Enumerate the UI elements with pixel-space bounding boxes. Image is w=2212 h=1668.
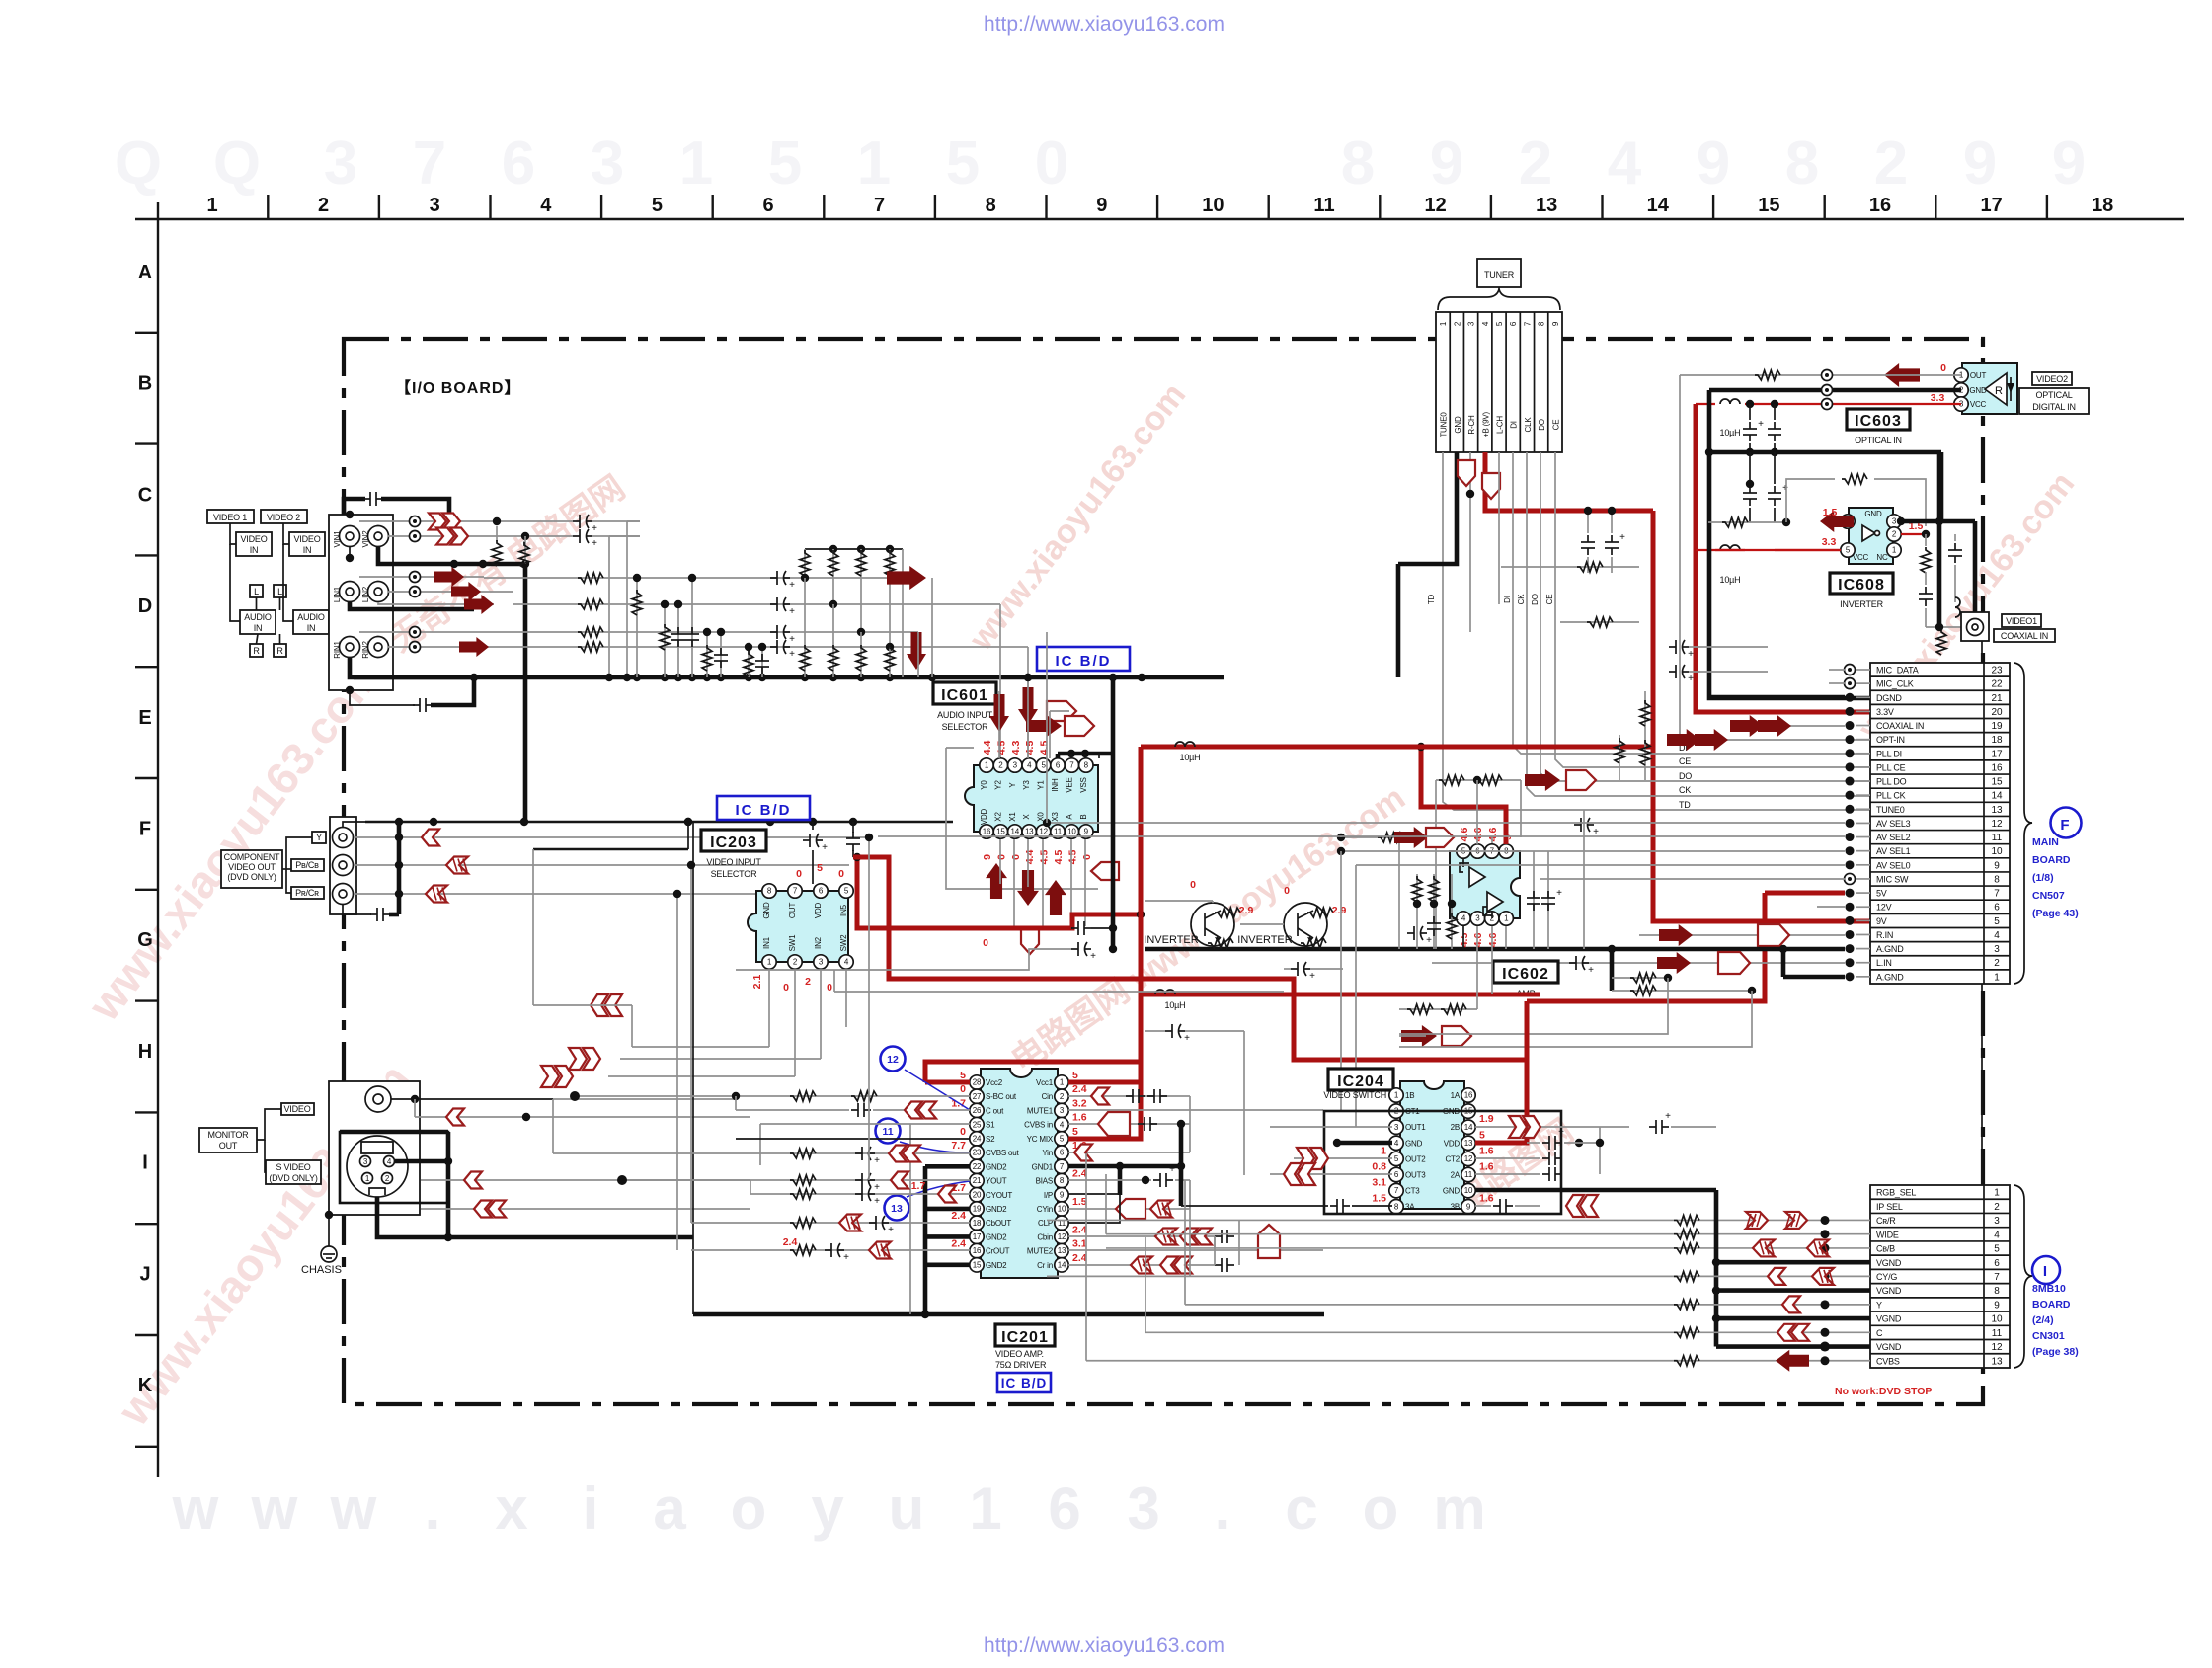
svg-text:VEE: VEE <box>1065 777 1073 792</box>
svg-text:9V: 9V <box>1876 916 1887 926</box>
svg-text:Cʙ/B: Cʙ/B <box>1876 1244 1895 1254</box>
IC601 bottom pin 9 <box>1079 825 1093 838</box>
svg-text:IC B/D: IC B/D <box>736 802 792 819</box>
jack Y <box>333 828 354 848</box>
svg-text:1: 1 <box>1994 1188 2000 1199</box>
svg-text:OUT2: OUT2 <box>1405 1154 1426 1163</box>
F row stubs <box>1856 669 1870 671</box>
svg-text:4.5: 4.5 <box>1024 741 1036 755</box>
IC201 right pin 6 <box>1055 1146 1068 1159</box>
IC201 left pin 15 <box>970 1258 984 1272</box>
svg-text:10: 10 <box>1067 828 1076 836</box>
svg-text:GND1: GND1 <box>1032 1162 1054 1171</box>
svg-text:GND2: GND2 <box>986 1232 1007 1241</box>
svg-text:【I/O BOARD】: 【I/O BOARD】 <box>395 379 520 397</box>
svg-text:18: 18 <box>973 1219 982 1228</box>
svg-text:IN5: IN5 <box>839 904 848 916</box>
IC201 right pin 12 <box>1055 1230 1068 1243</box>
svg-text:K: K <box>138 1375 153 1396</box>
svg-text:11: 11 <box>1464 1170 1473 1179</box>
svg-text:A.GND: A.GND <box>1876 944 1904 954</box>
svg-text:IC204: IC204 <box>1337 1073 1384 1090</box>
svg-text:14: 14 <box>1464 1123 1473 1132</box>
svg-text:1B: 1B <box>1405 1091 1414 1100</box>
svg-text:1: 1 <box>679 129 713 198</box>
svg-text:7.7: 7.7 <box>951 1140 966 1152</box>
svg-text:10µH: 10µH <box>1165 1000 1186 1010</box>
wire tuner L-CH down <box>1498 452 1500 604</box>
svg-text:13: 13 <box>1991 1356 2003 1367</box>
svg-text:LIN1: LIN1 <box>333 586 342 602</box>
ecap near inverter2 <box>1291 968 1298 970</box>
svg-text:6: 6 <box>1048 1475 1080 1542</box>
IC203 top pin 6 <box>814 884 828 898</box>
IC203 top pin 5 <box>839 884 853 898</box>
svg-text:3: 3 <box>1127 1475 1159 1542</box>
svg-text:CVBS in: CVBS in <box>1024 1121 1053 1130</box>
gray verticals left of IC201 <box>631 1005 633 1047</box>
svg-text:VDD: VDD <box>814 902 823 918</box>
svg-text:X3: X3 <box>1051 812 1060 822</box>
svg-text:16: 16 <box>973 1246 982 1255</box>
svg-text:Vcc1: Vcc1 <box>1036 1078 1054 1087</box>
svg-text:7: 7 <box>1069 761 1074 770</box>
svg-text:4.4: 4.4 <box>1024 850 1036 865</box>
blue ref 13 <box>885 1196 909 1221</box>
svg-text:8MB10: 8MB10 <box>2032 1283 2066 1295</box>
cap below panel <box>350 690 415 705</box>
IC608 pin 4 <box>1841 515 1855 528</box>
svg-text:VIDEO AMP.: VIDEO AMP. <box>995 1349 1044 1359</box>
wire MIC SW row <box>1540 878 1845 880</box>
IC204 right pin 12 <box>1461 1152 1475 1165</box>
svg-text:No work:DVD STOP: No work:DVD STOP <box>1835 1386 1932 1397</box>
svg-text:TUNE0: TUNE0 <box>1440 412 1449 437</box>
svg-text:VIDEO: VIDEO <box>293 534 320 544</box>
svg-text:MAIN: MAIN <box>2032 836 2059 848</box>
svg-text:+: + <box>843 1252 849 1263</box>
svg-text:RIN1: RIN1 <box>333 641 342 659</box>
IC201 left pin 25 <box>970 1117 984 1131</box>
svg-text:+: + <box>1556 888 1562 899</box>
svg-text:3: 3 <box>1994 944 2000 955</box>
arrow down below IC601 <box>1017 870 1039 906</box>
jack LIN2 <box>368 582 389 602</box>
svg-text:+: + <box>1090 951 1096 962</box>
wire Pr out <box>354 893 829 895</box>
wires IC203 left side <box>532 849 534 1005</box>
wire 12V row <box>1817 906 1845 908</box>
svg-text:GND2: GND2 <box>986 1162 1007 1171</box>
svg-text:2: 2 <box>1994 1202 2000 1213</box>
svg-text:S2: S2 <box>986 1135 995 1144</box>
connector F table <box>1870 663 2010 984</box>
svg-text:VIDEO1: VIDEO1 <box>2006 616 2037 626</box>
resistor vin2 shunt <box>523 541 525 546</box>
svg-text:VIDEO SWITCH: VIDEO SWITCH <box>1323 1090 1386 1100</box>
wire tuner DO down <box>1540 452 1870 781</box>
svg-text:2: 2 <box>805 976 811 988</box>
svg-text:IN: IN <box>254 623 263 633</box>
svg-text:C out: C out <box>986 1106 1004 1115</box>
ecap row585 <box>770 577 777 579</box>
IC204 GND thick <box>1337 1141 1392 1146</box>
svg-text:TD: TD <box>1427 594 1436 604</box>
IC601 top pin 3 <box>1008 758 1022 772</box>
svg-text:IC608: IC608 <box>1838 577 1885 594</box>
svg-text:S1: S1 <box>986 1121 995 1130</box>
IC204 body <box>1400 1081 1464 1209</box>
svg-text:9: 9 <box>1096 195 1107 216</box>
svg-text:+: + <box>1619 532 1625 543</box>
svg-text:2: 2 <box>318 195 329 216</box>
svg-text:3.1: 3.1 <box>1072 1238 1087 1250</box>
svg-text:0: 0 <box>960 1083 966 1095</box>
svg-text:1.6: 1.6 <box>1479 1193 1494 1205</box>
caps mid IC608 <box>1749 452 1751 484</box>
svg-text:LIN2: LIN2 <box>361 586 370 602</box>
IC204 right pin 13 <box>1461 1136 1475 1150</box>
svg-text:5: 5 <box>1495 321 1504 326</box>
svg-text:1.9: 1.9 <box>1479 1113 1494 1125</box>
wire tuner CE down <box>1555 452 1870 767</box>
svg-text:m: m <box>1433 1475 1485 1542</box>
svg-text:CHASIS: CHASIS <box>301 1264 342 1276</box>
svg-text:BIAS: BIAS <box>1036 1177 1053 1186</box>
IC602 bottom pin 2 <box>1485 912 1499 925</box>
red arrow down to bus <box>907 632 926 670</box>
svg-text:9: 9 <box>1084 828 1089 836</box>
svg-text:22: 22 <box>973 1162 982 1171</box>
svg-text:CE: CE <box>1551 420 1560 431</box>
IC201 right pin 13 <box>1055 1243 1068 1257</box>
svg-text:75Ω DRIVER: 75Ω DRIVER <box>995 1360 1047 1370</box>
wires into IC201 left <box>575 1095 970 1097</box>
ecap vin2 <box>573 535 580 537</box>
svg-text:1.5: 1.5 <box>1072 1196 1087 1208</box>
svg-text:0: 0 <box>960 1126 966 1138</box>
resistor row655 <box>578 642 603 652</box>
svg-text:21: 21 <box>973 1176 982 1185</box>
wire COAXIAL row <box>1739 725 1845 727</box>
svg-text:w: w <box>330 1475 377 1542</box>
svg-text:y: y <box>811 1475 844 1542</box>
red VCC to IC608 <box>1696 549 1745 551</box>
label VIDEO1 <box>2002 614 2041 627</box>
svg-text:6: 6 <box>762 195 773 216</box>
svg-text:http://www.xiaoyu163.com: http://www.xiaoyu163.com <box>984 13 1224 36</box>
svg-text:12: 12 <box>887 1054 899 1066</box>
svg-text:2B: 2B <box>1451 1123 1460 1132</box>
red trunk continue to IC201 <box>1139 994 1144 1062</box>
svg-text:9: 9 <box>1697 129 1730 198</box>
svg-text:13: 13 <box>1058 1246 1066 1255</box>
svg-text:+: + <box>592 523 597 534</box>
arrow up below IC601 <box>986 863 1007 899</box>
svg-text:AUDIO INPUT: AUDIO INPUT <box>937 710 993 720</box>
svg-text:SELECTOR: SELECTOR <box>711 869 757 879</box>
svg-text:2: 2 <box>998 761 1003 770</box>
inverter base wires <box>1145 900 1213 902</box>
connector F circle label <box>2051 808 2082 838</box>
IC204 right wires <box>1475 1126 1629 1128</box>
connector I circle label <box>2032 1256 2060 1284</box>
connector I brace <box>2014 1185 2032 1368</box>
svg-text:5: 5 <box>1041 761 1046 770</box>
svg-text:VGND: VGND <box>1876 1258 1902 1268</box>
svg-text:11: 11 <box>1992 1328 2003 1339</box>
svg-text:AUDIO: AUDIO <box>297 612 325 622</box>
wire L to audio2 <box>279 597 281 610</box>
svg-text:5: 5 <box>1072 1070 1078 1081</box>
red 5V row <box>1765 891 1845 896</box>
red YC MIX wire <box>1068 1082 1141 1139</box>
svg-text:IC B/D: IC B/D <box>1056 653 1112 670</box>
svg-text:+: + <box>789 606 795 617</box>
wire Y out <box>354 836 869 838</box>
svg-text:Y1: Y1 <box>1037 780 1046 790</box>
svg-text:VCC: VCC <box>1853 553 1869 562</box>
monitor vertical link <box>414 1099 416 1117</box>
gray verticals component to IC201 <box>690 865 692 1223</box>
svg-text:I: I <box>142 1152 148 1174</box>
svg-text:GND: GND <box>1454 416 1462 434</box>
svg-text:13: 13 <box>1464 1139 1473 1148</box>
IC608 pin 1 <box>1887 543 1901 557</box>
svg-text:Cʀ/R: Cʀ/R <box>1876 1216 1896 1226</box>
resistor bank top <box>804 549 806 578</box>
IC601 surrounding wire box <box>946 748 1098 889</box>
wires below IC602 <box>1462 926 1464 949</box>
shield arrow +B <box>1482 473 1500 499</box>
svg-text:4.6: 4.6 <box>1472 828 1484 842</box>
svg-text:0: 0 <box>995 854 1007 860</box>
connector F brace <box>2014 663 2032 984</box>
big red horizontal y756 <box>1141 745 1653 750</box>
IC201 right pin 9 <box>1055 1188 1068 1202</box>
svg-text:OPT-IN: OPT-IN <box>1876 735 1905 745</box>
svg-text:VDD: VDD <box>980 808 988 825</box>
svg-text:L: L <box>277 587 282 596</box>
wire MIC_DATA row <box>1829 669 1845 671</box>
svg-text:5: 5 <box>817 862 823 874</box>
svg-text:4.5: 4.5 <box>1053 850 1065 865</box>
red VDD route from IC203 <box>853 857 1527 1060</box>
resistor rows above IC602 <box>1560 621 1639 623</box>
svg-text:YC MIX: YC MIX <box>1027 1135 1054 1144</box>
svg-text:VIDEO 1: VIDEO 1 <box>213 513 247 522</box>
svg-text:Y: Y <box>316 833 322 842</box>
svg-text:1.7: 1.7 <box>911 1180 926 1192</box>
box AUDIO IN 1 <box>240 610 276 634</box>
IC601 body <box>965 765 1098 832</box>
thick GND pin3 <box>1901 519 1939 524</box>
feedback loop IC608 <box>1786 479 1835 522</box>
IC201 right pin 5 <box>1055 1132 1068 1146</box>
svg-text:I/P: I/P <box>1044 1191 1053 1200</box>
svg-text:Cbin: Cbin <box>1037 1232 1053 1241</box>
svg-text:3: 3 <box>324 129 357 198</box>
IC201 body <box>981 1069 1058 1278</box>
svg-text:VGND: VGND <box>1876 1342 1902 1352</box>
svg-text:CK: CK <box>1517 594 1526 605</box>
caps under tuner <box>1587 511 1589 533</box>
svg-text:19: 19 <box>973 1205 982 1214</box>
IC201 left pin 18 <box>970 1216 984 1230</box>
svg-text:10: 10 <box>1991 1314 2003 1325</box>
svg-text:7: 7 <box>1994 889 2000 900</box>
IC203 top pin 7 <box>788 884 802 898</box>
svg-text:IC203: IC203 <box>710 834 757 851</box>
thick vin2 drop x532 <box>523 564 528 822</box>
svg-text:16: 16 <box>983 828 991 836</box>
IC601 top pin 5 <box>1036 758 1050 772</box>
svg-text:MIC_CLK: MIC_CLK <box>1876 679 1914 689</box>
svg-text:.: . <box>425 1475 441 1542</box>
svg-text:DI: DI <box>1510 421 1519 429</box>
svg-text:0.8: 0.8 <box>1372 1161 1386 1173</box>
vertical x687 cap <box>677 604 679 677</box>
wire box right IC201 <box>1243 1031 1245 1175</box>
IC601 bottom pin 16 <box>980 825 993 838</box>
svg-text:13: 13 <box>1025 828 1034 836</box>
caps verticals right of IC201 <box>1189 1096 1191 1152</box>
svg-text:13: 13 <box>891 1203 903 1215</box>
svg-text:11: 11 <box>1054 828 1063 836</box>
svg-text:GND: GND <box>1405 1139 1423 1148</box>
svg-text:MUTE1: MUTE1 <box>1027 1106 1054 1115</box>
vertical x716 cluster <box>706 632 708 677</box>
IC203 body <box>748 891 848 962</box>
wire Pb out <box>354 864 849 866</box>
svg-text:7: 7 <box>413 129 446 198</box>
svg-text:OUT3: OUT3 <box>1405 1171 1426 1180</box>
svg-text:1.6: 1.6 <box>1479 1161 1494 1173</box>
svg-text:x: x <box>495 1475 527 1542</box>
red trunk down x1155 <box>1139 747 1144 994</box>
wire MIC_CLK row <box>1829 682 1845 684</box>
svg-text:MIC_DATA: MIC_DATA <box>1876 666 1919 675</box>
svg-text:4: 4 <box>1994 930 2000 941</box>
svg-text:(DVD ONLY): (DVD ONLY) <box>269 1173 318 1183</box>
box MONITOR OUT <box>199 1128 257 1152</box>
svg-text:L-CH: L-CH <box>1495 416 1504 434</box>
wire vin1 link <box>533 520 573 522</box>
thick wire above IC203 <box>687 822 689 849</box>
left border line <box>157 202 159 1477</box>
svg-text:CN301: CN301 <box>2032 1330 2065 1342</box>
wire row640 drop <box>917 632 919 677</box>
svg-text:SELECTOR: SELECTOR <box>942 722 988 732</box>
IC204 right pin 15 <box>1461 1104 1475 1118</box>
svg-text:12: 12 <box>1464 1154 1473 1163</box>
wire y1195 svideo Y <box>421 1179 750 1181</box>
svg-text:S-BC out: S-BC out <box>986 1092 1017 1101</box>
wires below IC203 <box>768 970 770 1047</box>
svg-text:2: 2 <box>1453 321 1461 326</box>
svg-text:6: 6 <box>1994 1258 2000 1269</box>
svg-text:9: 9 <box>1551 321 1560 326</box>
svg-text:(Page 38): (Page 38) <box>2032 1346 2079 1358</box>
IC204 left pin 8 <box>1389 1200 1403 1214</box>
IC201 left pin 27 <box>970 1089 984 1103</box>
wires below IC601 <box>999 839 1001 884</box>
IC201 gnd trunk <box>923 1166 928 1314</box>
red VDD cap <box>1527 1142 1540 1144</box>
svg-text:+: + <box>1426 935 1432 946</box>
IC204 right pin 10 <box>1461 1183 1475 1197</box>
svg-text:1: 1 <box>1994 972 2000 983</box>
svg-text:4.3: 4.3 <box>1010 741 1022 755</box>
arrow below IC602 <box>1401 1025 1437 1047</box>
monitor panel <box>329 1081 420 1215</box>
svg-text:+: + <box>789 649 795 660</box>
svg-text:DGND: DGND <box>1876 693 1902 703</box>
svg-text:.: . <box>1215 1475 1231 1542</box>
cap cluster left of IC602 <box>1416 874 1418 949</box>
svg-text:4.5: 4.5 <box>1459 933 1470 948</box>
svg-text:MIC SW: MIC SW <box>1876 874 1909 884</box>
label Pr/Cr box <box>291 887 324 899</box>
svg-text:GND2: GND2 <box>986 1205 1007 1214</box>
svg-text:+: + <box>1558 1127 1564 1138</box>
IC203 bottom pin 3 <box>814 955 828 969</box>
svg-text:1.6: 1.6 <box>1072 1112 1087 1124</box>
wire pin7 top <box>1491 837 1493 843</box>
IC601 bottom pin 13 <box>1022 825 1036 838</box>
IC608 pin 5 <box>1841 543 1855 557</box>
label OPTICAL DIGITAL IN <box>2019 388 2089 414</box>
svg-text:12: 12 <box>1058 1232 1066 1241</box>
svg-text:4.6: 4.6 <box>1472 933 1484 948</box>
svg-text:GND2: GND2 <box>986 1261 1007 1270</box>
blue IC B/D label top <box>1037 647 1130 671</box>
IC601 top pin 6 <box>1051 758 1065 772</box>
svg-text:CT2: CT2 <box>1445 1154 1460 1163</box>
svg-text:12: 12 <box>1991 819 2003 830</box>
wire drop x1774 <box>1399 991 1752 1047</box>
svideo DIN connector <box>347 1136 408 1197</box>
svg-text:IC201: IC201 <box>1001 1329 1049 1346</box>
IC603 receiver symbol <box>1985 373 2007 405</box>
svg-text:OUT: OUT <box>219 1141 238 1151</box>
svg-text:IP SEL: IP SEL <box>1876 1202 1903 1212</box>
svg-text:2.4: 2.4 <box>1072 1168 1087 1180</box>
wire R.IN row <box>1639 934 1845 936</box>
svg-text:2.4: 2.4 <box>1072 1224 1087 1235</box>
IC204 right pin 16 <box>1461 1088 1475 1102</box>
resistor row585 <box>578 573 603 583</box>
svg-text:GND: GND <box>1864 510 1882 518</box>
svg-text:1: 1 <box>857 129 891 198</box>
svg-text:u: u <box>889 1475 925 1542</box>
svg-text:CbOUT: CbOUT <box>986 1219 1011 1228</box>
svg-text:4: 4 <box>1481 321 1490 326</box>
svg-text:(DVD ONLY): (DVD ONLY) <box>227 872 276 882</box>
svg-text:4: 4 <box>1027 761 1032 770</box>
IC201 right pin 7 <box>1055 1159 1068 1173</box>
svg-text:WIDE: WIDE <box>1876 1230 1899 1239</box>
svg-text:15: 15 <box>996 828 1005 836</box>
wire tuner CLK down <box>1527 452 1870 796</box>
svg-text:COMPONENT: COMPONENT <box>224 852 280 862</box>
svg-text:OUT: OUT <box>1970 371 1987 380</box>
component top thick bus <box>343 822 365 827</box>
svg-text:(Page 43): (Page 43) <box>2032 908 2079 919</box>
svg-text:VGND: VGND <box>1876 1286 1902 1296</box>
component jack panel <box>330 817 356 914</box>
svideo outer box <box>340 1132 448 1203</box>
